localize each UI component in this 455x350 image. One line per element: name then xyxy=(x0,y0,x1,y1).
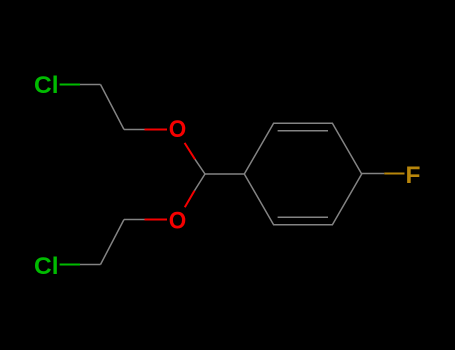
bond C2'-O2 red half xyxy=(145,219,168,221)
svg-text:Cl: Cl xyxy=(34,72,59,99)
bond Cl2-C1' green half xyxy=(60,264,80,266)
bond O2-CH red half xyxy=(185,191,195,208)
bond C2'-O2 gray half xyxy=(124,219,145,221)
benzene ring outline xyxy=(244,123,361,224)
ring double bond inner line bottom xyxy=(278,216,328,218)
bond O1-CH gray half xyxy=(195,159,205,174)
bond C2-O1 gray half xyxy=(124,129,145,131)
bond C2-O1 red half xyxy=(145,129,168,131)
svg-text:F: F xyxy=(406,162,421,189)
ring double bond inner line top xyxy=(278,130,328,132)
bond C1'-C2' bottom chain xyxy=(101,220,125,265)
svg-text:O: O xyxy=(169,116,187,143)
bond Cl1-C1 green half xyxy=(60,84,80,86)
svg-text:O: O xyxy=(169,208,187,235)
svg-text:Cl: Cl xyxy=(34,253,59,280)
bond O1-CH red half xyxy=(185,143,195,159)
bond Cl1-C1 gray half xyxy=(80,84,101,86)
bond C1-C2 top chain xyxy=(101,85,125,130)
bond ring-F olive half xyxy=(384,173,404,175)
bond CH-ring V1 xyxy=(205,173,244,175)
bond ring-F gray half xyxy=(362,173,385,175)
bond O2-CH gray half xyxy=(195,174,206,191)
bond Cl2-C1' gray half xyxy=(80,264,101,266)
